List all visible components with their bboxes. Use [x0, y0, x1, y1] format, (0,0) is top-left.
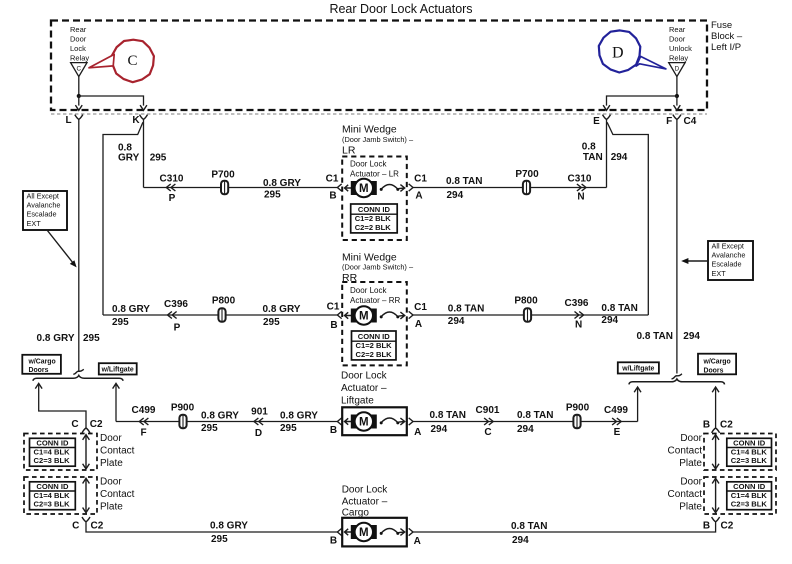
- junction dot: [77, 94, 81, 98]
- svg-text:N: N: [575, 320, 582, 331]
- wire to door contact plate (left): [39, 384, 86, 428]
- svg-text:B: B: [330, 425, 337, 436]
- svg-text:Actuator – RR: Actuator – RR: [350, 296, 400, 305]
- svg-text:CONN ID: CONN ID: [36, 439, 69, 448]
- wire to liftgate row (left): [115, 384, 117, 422]
- wire label 0.8 TAN 294: [430, 410, 467, 435]
- svg-text:C2=3 BLK: C2=3 BLK: [731, 500, 768, 509]
- wire junction to K drop: [79, 96, 144, 106]
- fuse block dashed outline: [51, 21, 707, 111]
- terminal L: [75, 115, 83, 120]
- svg-text:0.8 TAN: 0.8 TAN: [637, 331, 674, 342]
- svg-text:Mini Wedge: Mini Wedge: [342, 125, 397, 136]
- svg-text:C310: C310: [160, 173, 184, 184]
- wire to door contact plate (right): [715, 388, 717, 428]
- svg-text:C1: C1: [326, 174, 339, 185]
- svg-text:Doors: Doors: [29, 367, 49, 374]
- svg-text:Door Lock: Door Lock: [350, 159, 387, 168]
- svg-text:GRY: GRY: [118, 153, 140, 164]
- label Door Contact Plate (left lower): [100, 476, 135, 512]
- brace (left): [33, 375, 123, 380]
- svg-text:C1: C1: [414, 302, 427, 313]
- svg-text:295: 295: [83, 333, 100, 344]
- wire E down to LR row: [606, 119, 608, 187]
- svg-text:Doors: Doors: [704, 367, 724, 374]
- pass-through arrow (left upper): [83, 435, 90, 469]
- svg-text:294: 294: [431, 424, 448, 435]
- svg-text:C1: C1: [414, 174, 427, 185]
- svg-text:901: 901: [251, 406, 268, 417]
- svg-text:P800: P800: [212, 296, 236, 307]
- svg-text:0.8 TAN: 0.8 TAN: [511, 521, 548, 532]
- svg-text:C396: C396: [565, 298, 589, 309]
- svg-text:B: B: [330, 536, 337, 547]
- svg-text:w/Cargo: w/Cargo: [28, 358, 56, 365]
- svg-text:Door: Door: [100, 476, 122, 487]
- svg-text:P700: P700: [211, 169, 235, 180]
- wire L down to cargo-doors break: [78, 119, 80, 372]
- svg-text:Door Lock: Door Lock: [341, 370, 388, 381]
- svg-text:0.8 TAN: 0.8 TAN: [446, 176, 483, 187]
- svg-text:0.8 GRY: 0.8 GRY: [210, 520, 248, 531]
- svg-text:0.8 GRY: 0.8 GRY: [201, 410, 239, 421]
- label Rear Door Lock Relay: [70, 25, 89, 62]
- svg-text:0.8 TAN: 0.8 TAN: [517, 410, 554, 421]
- pointer arrow from note to F wire: [684, 260, 708, 262]
- svg-text:C2: C2: [720, 419, 733, 430]
- CONN ID table (left lower): [30, 482, 76, 510]
- svg-text:295: 295: [112, 317, 129, 328]
- label Door Contact Plate (right upper): [668, 433, 703, 469]
- door lock actuator RR dashed box: [342, 282, 407, 365]
- svg-text:295: 295: [201, 423, 218, 434]
- arrowhead into terminal E: [603, 105, 610, 110]
- svg-text:Rear Door Lock Actuators: Rear Door Lock Actuators: [329, 2, 472, 16]
- terminal out of LR actuator: [409, 184, 413, 191]
- connector C310 chevrons (right): [577, 184, 586, 191]
- label C901 C: [476, 405, 500, 438]
- svg-text:(Door Jamb Switch) –: (Door Jamb Switch) –: [342, 135, 414, 144]
- wire LR row right segment: [413, 187, 607, 189]
- relay C triangle terminal: [71, 63, 87, 77]
- arrowhead into terminal F: [674, 105, 681, 110]
- wire relay D down to junction: [676, 77, 678, 96]
- wire label 0.8 TAN 294: [446, 176, 483, 201]
- pointer arrow from note to L wire: [47, 230, 74, 264]
- label C396 P: [164, 299, 188, 334]
- connector 901 chevrons: [254, 418, 263, 425]
- svg-text:CONN ID: CONN ID: [358, 332, 391, 341]
- wire K down to LR row: [143, 119, 145, 187]
- terminal C2 (left lower): [82, 517, 90, 522]
- terminal into RR actuator: [337, 311, 341, 318]
- motor M cargo: [351, 523, 377, 541]
- wire label 0.8 TAN 294 (right of C396): [601, 303, 638, 326]
- CONN ID table (right upper): [727, 438, 772, 466]
- svg-text:Door: Door: [100, 433, 122, 444]
- wire label 0.8 GRY 295: [263, 304, 301, 328]
- splice P800 (right): [524, 308, 531, 322]
- box w/Liftgate (right): [618, 362, 659, 373]
- svg-text:Door Lock: Door Lock: [342, 485, 389, 496]
- svg-text:Plate: Plate: [679, 458, 702, 469]
- svg-text:C2: C2: [721, 520, 734, 531]
- svg-text:P900: P900: [171, 402, 195, 413]
- svg-text:Escalade: Escalade: [712, 260, 742, 269]
- wire E diagonal branch: [607, 122, 648, 315]
- svg-text:294: 294: [517, 424, 534, 435]
- svg-text:0.8 GRY: 0.8 GRY: [263, 304, 301, 315]
- svg-text:Door: Door: [680, 476, 702, 487]
- svg-text:E: E: [614, 427, 621, 438]
- relay D triangle terminal: [669, 63, 685, 77]
- svg-text:P800: P800: [514, 295, 538, 306]
- label C1 B (LR left pin): [326, 174, 339, 202]
- label C310 N: [568, 173, 592, 202]
- wire to liftgate row (right): [637, 388, 639, 422]
- break symbol on right drop: [672, 374, 683, 379]
- svg-text:M: M: [359, 416, 369, 428]
- svg-text:Relay: Relay: [70, 53, 89, 62]
- label C1 A (LR right pin): [414, 174, 427, 202]
- arrowhead into terminal L: [75, 105, 82, 110]
- branch arrow w/Cargo (left): [35, 383, 42, 388]
- junction dot: [675, 94, 679, 98]
- svg-text:w/Liftgate: w/Liftgate: [101, 367, 134, 374]
- branch arrow w/Cargo (right): [712, 387, 719, 392]
- svg-text:C1: C1: [327, 302, 340, 313]
- svg-text:P: P: [174, 323, 181, 334]
- note box All Except Avalanche Escalade EXT (right): [708, 241, 753, 280]
- label Door Lock Actuator - LR: [350, 159, 399, 178]
- svg-text:D: D: [675, 65, 680, 72]
- wire RR row right segment: [413, 314, 648, 316]
- terminal into LR actuator: [337, 184, 341, 191]
- svg-text:F: F: [666, 116, 672, 127]
- svg-text:(Door Jamb Switch) –: (Door Jamb Switch) –: [342, 262, 414, 271]
- connector C396 chevrons (right): [575, 312, 584, 319]
- svg-text:C901: C901: [476, 405, 500, 416]
- pass-through arrow (right lower): [712, 478, 719, 512]
- splice P900 (left): [179, 415, 186, 429]
- svg-text:Actuator –: Actuator –: [342, 497, 388, 508]
- svg-text:C2: C2: [91, 520, 104, 531]
- door contact plate dashed box (right lower): [704, 477, 776, 514]
- label Fuse Block - Left I/P: [711, 20, 743, 53]
- svg-text:C: C: [484, 427, 491, 438]
- svg-text:C2=2 BLK: C2=2 BLK: [356, 350, 393, 359]
- svg-text:295: 295: [264, 190, 281, 201]
- note box All Except Avalanche Escalade EXT (left): [23, 191, 67, 230]
- svg-text:C499: C499: [132, 405, 156, 416]
- motor M LR: [351, 179, 377, 197]
- label B C2 (right upper): [703, 419, 733, 430]
- wire liftgate row left segment: [116, 421, 337, 423]
- CONN ID table (right lower): [727, 482, 772, 510]
- wire RR row left segment: [103, 314, 337, 316]
- svg-text:A: A: [414, 427, 421, 438]
- wire LR row left segment: [144, 187, 338, 189]
- connector C901 chevrons: [484, 418, 493, 425]
- svg-text:Door: Door: [70, 34, 87, 43]
- wire label 0.8 TAN 294 (E drop): [582, 142, 628, 163]
- svg-text:294: 294: [448, 316, 465, 327]
- inner arrow left (RR): [345, 312, 352, 318]
- connector C499 chevrons (right): [612, 418, 621, 425]
- svg-text:A: A: [415, 191, 422, 202]
- wire relay C down to junction: [78, 77, 80, 96]
- splice P700 (left): [221, 181, 228, 195]
- label C310 P: [160, 173, 184, 204]
- splice P800 (left): [218, 308, 225, 322]
- svg-text:P: P: [169, 193, 176, 204]
- svg-text:Relay: Relay: [669, 53, 688, 62]
- svg-text:D: D: [255, 428, 262, 439]
- wire label 0.8 GRY 295: [263, 178, 301, 201]
- label C1 A (RR right pin): [414, 302, 427, 330]
- label 901 D: [251, 406, 268, 439]
- svg-text:Door Lock: Door Lock: [350, 286, 387, 295]
- svg-text:B: B: [329, 191, 336, 202]
- svg-text:All Except: All Except: [27, 192, 59, 201]
- svg-text:M: M: [359, 527, 369, 539]
- svg-text:295: 295: [150, 153, 167, 164]
- connector face gray dashed line C4: [51, 113, 707, 115]
- wire label 0.8 GRY 295: [112, 304, 150, 328]
- door contact plate dashed box (right upper): [704, 434, 776, 471]
- svg-text:CONN ID: CONN ID: [733, 482, 766, 491]
- svg-text:All Except: All Except: [712, 242, 744, 251]
- callout balloon D (blue): [599, 30, 641, 72]
- door contact plate dashed box (left lower): [24, 477, 97, 514]
- wire label 0.8 GRY 295 (K drop): [118, 142, 167, 163]
- svg-text:CONN ID: CONN ID: [358, 205, 391, 214]
- pass-through arrow (left lower): [83, 478, 90, 512]
- branch arrow w/Liftgate (right): [634, 387, 641, 392]
- pass-through arrow (right upper): [712, 435, 719, 469]
- svg-text:C2: C2: [90, 419, 103, 430]
- CONN ID table RR: [352, 331, 397, 360]
- wire K diagonal branch: [103, 122, 143, 315]
- swing arrow (cargo): [380, 529, 405, 536]
- svg-text:C: C: [77, 65, 82, 72]
- label B C2 (right lower): [703, 520, 734, 531]
- heading Mini Wedge (Door Jamb Switch) - LR: [342, 125, 414, 157]
- door lock actuator cargo box: [342, 518, 407, 547]
- label Door Contact Plate (right lower): [668, 476, 703, 512]
- terminal out of liftgate actuator: [409, 418, 413, 425]
- svg-text:w/Cargo: w/Cargo: [703, 359, 731, 366]
- svg-text:B: B: [330, 320, 337, 331]
- swing arrow (LR): [380, 185, 405, 192]
- inner arrow left (liftgate): [345, 418, 352, 424]
- svg-text:0.8 GRY: 0.8 GRY: [263, 178, 301, 189]
- svg-text:Door: Door: [669, 34, 686, 43]
- splice P900 (right): [573, 415, 580, 429]
- svg-text:EXT: EXT: [712, 269, 727, 278]
- svg-text:Contact: Contact: [668, 445, 703, 456]
- svg-text:Avalanche: Avalanche: [27, 201, 61, 210]
- label C1 B (RR left pin): [327, 302, 340, 332]
- connector C396 chevrons (left): [168, 312, 177, 319]
- svg-text:C: C: [72, 520, 79, 531]
- wire label 0.8 GRY 295: [201, 410, 239, 434]
- CONN ID table LR: [351, 204, 398, 233]
- connector C499 chevrons (left): [139, 418, 148, 425]
- svg-text:C2=3 BLK: C2=3 BLK: [34, 456, 71, 465]
- label C C2 (left lower): [72, 520, 104, 531]
- svg-text:295: 295: [280, 423, 297, 434]
- heading Mini Wedge (Door Jamb Switch) - RR: [342, 253, 414, 284]
- CONN ID table (left upper): [30, 438, 76, 466]
- wire junction to E drop: [607, 96, 677, 106]
- svg-text:Lock: Lock: [70, 44, 86, 53]
- terminal out of cargo actuator: [409, 528, 413, 535]
- svg-text:Contact: Contact: [100, 489, 135, 500]
- svg-text:C4: C4: [684, 116, 697, 127]
- wire label 0.8 TAN 294: [517, 410, 554, 435]
- svg-text:Block –: Block –: [711, 31, 743, 42]
- connector C310 chevrons (left): [166, 184, 175, 191]
- svg-text:C2=2 BLK: C2=2 BLK: [355, 223, 392, 232]
- terminal C2 (right lower): [712, 517, 720, 522]
- terminal out of RR actuator: [409, 311, 413, 318]
- svg-text:C2=3 BLK: C2=3 BLK: [731, 456, 768, 465]
- door contact plate dashed box (left upper): [24, 434, 97, 471]
- svg-text:A: A: [415, 319, 422, 330]
- svg-text:0.8 GRY: 0.8 GRY: [37, 333, 75, 344]
- svg-text:A: A: [414, 536, 421, 547]
- wire label 0.8 TAN 294 (cargo): [511, 521, 548, 546]
- wire label 0.8 GRY 295 (left drop): [37, 333, 101, 344]
- brace (right): [629, 379, 725, 384]
- wire junction down to L: [78, 96, 80, 106]
- callout balloon C (red): [112, 40, 154, 82]
- terminal K: [140, 115, 148, 120]
- svg-text:Avalanche: Avalanche: [712, 251, 746, 260]
- svg-text:E: E: [593, 116, 600, 127]
- svg-text:C2=3 BLK: C2=3 BLK: [34, 500, 71, 509]
- motor M RR: [351, 306, 377, 324]
- box w/Cargo Doors (left): [22, 355, 61, 374]
- svg-text:CONN ID: CONN ID: [733, 439, 766, 448]
- label C499 E: [604, 405, 628, 438]
- svg-text:Plate: Plate: [100, 458, 123, 469]
- motor M liftgate: [351, 412, 377, 430]
- svg-text:N: N: [577, 191, 584, 202]
- svg-text:0.8 TAN: 0.8 TAN: [448, 303, 485, 314]
- svg-text:LR: LR: [342, 144, 356, 156]
- svg-text:294: 294: [447, 190, 464, 201]
- svg-text:Rear: Rear: [669, 25, 686, 34]
- wire label 0.8 TAN 294: [448, 303, 485, 327]
- svg-text:294: 294: [601, 315, 618, 326]
- svg-text:w/Liftgate: w/Liftgate: [621, 366, 654, 373]
- wire label 0.8 GRY 295: [280, 410, 318, 434]
- svg-text:M: M: [359, 310, 369, 322]
- wire label 0.8 TAN 294 (right drop): [637, 331, 701, 342]
- svg-text:CONN ID: CONN ID: [36, 482, 69, 491]
- svg-text:0.8 GRY: 0.8 GRY: [112, 304, 150, 315]
- label Door Contact Plate (left upper): [100, 433, 135, 469]
- svg-text:Plate: Plate: [679, 501, 702, 512]
- svg-text:Left I/P: Left I/P: [711, 42, 741, 53]
- svg-text:TAN: TAN: [583, 152, 603, 163]
- label Door Lock Actuator - RR: [350, 286, 400, 305]
- terminal C2 (left upper): [82, 428, 90, 433]
- wire F down to cargo-doors break: [676, 119, 678, 373]
- svg-text:P900: P900: [566, 403, 590, 414]
- svg-text:294: 294: [512, 535, 529, 546]
- label C C2 (left upper): [71, 419, 103, 430]
- svg-text:Contact: Contact: [100, 445, 135, 456]
- wire label 0.8 GRY 295 (cargo): [210, 520, 248, 545]
- svg-text:Fuse: Fuse: [711, 20, 732, 31]
- inner arrow left (LR): [345, 185, 352, 191]
- wire liftgate row right segment: [413, 421, 638, 423]
- svg-text:Escalade: Escalade: [27, 210, 57, 219]
- svg-text:D: D: [612, 44, 624, 61]
- arrowhead into terminal K: [140, 105, 147, 110]
- svg-text:295: 295: [263, 317, 280, 328]
- svg-text:Rear: Rear: [70, 25, 87, 34]
- svg-text:Unlock: Unlock: [669, 44, 692, 53]
- svg-text:294: 294: [683, 331, 700, 342]
- wire junction down to F: [676, 96, 678, 106]
- svg-text:295: 295: [211, 534, 228, 545]
- svg-text:294: 294: [611, 152, 628, 163]
- swing arrow (RR): [380, 312, 405, 319]
- terminal C2 (right upper): [712, 428, 720, 433]
- inner arrow left (cargo): [345, 529, 352, 535]
- door lock actuator liftgate box: [342, 407, 407, 435]
- svg-text:L: L: [66, 115, 72, 126]
- terminal into cargo actuator: [337, 528, 341, 535]
- swing arrow (liftgate): [380, 418, 405, 425]
- svg-text:EXT: EXT: [27, 219, 42, 228]
- break symbol on left drop: [73, 369, 84, 374]
- svg-text:Plate: Plate: [100, 501, 123, 512]
- box w/Cargo Doors (right): [698, 354, 736, 375]
- svg-text:F: F: [140, 428, 146, 439]
- svg-text:Door: Door: [680, 433, 702, 444]
- svg-text:C: C: [127, 53, 137, 69]
- svg-text:P700: P700: [515, 169, 539, 180]
- svg-text:C: C: [71, 419, 78, 430]
- heading Door Lock Actuator - Cargo: [342, 485, 389, 519]
- svg-text:B: B: [703, 419, 710, 430]
- door lock actuator LR dashed box: [342, 157, 407, 241]
- heading Door Lock Actuator - Liftgate: [341, 370, 388, 406]
- svg-text:C396: C396: [164, 299, 188, 310]
- box w/Liftgate (left): [99, 363, 137, 374]
- wire cargo row left vertical: [86, 522, 337, 532]
- svg-text:Contact: Contact: [668, 489, 703, 500]
- svg-text:0.8 TAN: 0.8 TAN: [601, 303, 638, 314]
- wire cargo row right segment: [413, 522, 716, 532]
- svg-text:Actuator –: Actuator –: [341, 383, 387, 394]
- label C396 N: [565, 298, 589, 331]
- svg-text:K: K: [132, 115, 140, 126]
- svg-text:B: B: [703, 520, 710, 531]
- svg-text:0.8 TAN: 0.8 TAN: [430, 410, 467, 421]
- svg-text:0.8 GRY: 0.8 GRY: [280, 410, 318, 421]
- splice P700 (right): [523, 181, 530, 195]
- svg-text:C499: C499: [604, 405, 628, 416]
- branch arrow w/Liftgate (left): [113, 383, 120, 388]
- terminal into liftgate actuator: [337, 418, 341, 425]
- svg-text:Actuator – LR: Actuator – LR: [350, 169, 399, 178]
